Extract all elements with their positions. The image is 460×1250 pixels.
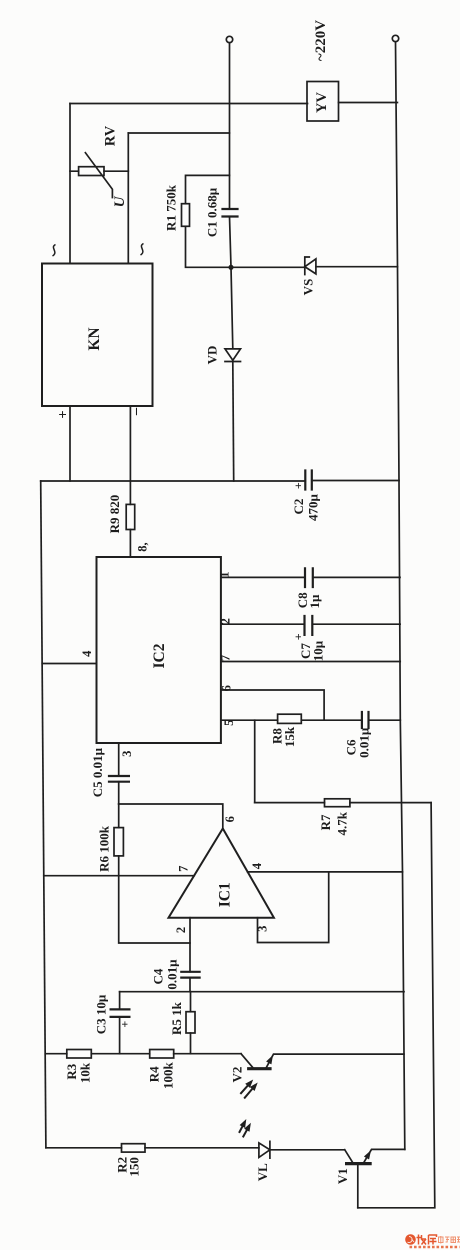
svg-text:R9 820: R9 820 xyxy=(107,495,122,534)
svg-text:C5 0.01μ: C5 0.01μ xyxy=(90,747,105,797)
svg-text:150: 150 xyxy=(127,1157,142,1177)
svg-text:C4: C4 xyxy=(150,968,165,984)
wire: IC2 pin7 to right rail xyxy=(221,661,400,663)
svg-text:V1: V1 xyxy=(335,1168,350,1184)
svg-text:10k: 10k xyxy=(78,1062,93,1083)
resistor R7 xyxy=(325,799,350,807)
svg-text:VL: VL xyxy=(255,1163,270,1181)
svg-text:3: 3 xyxy=(120,751,134,757)
wire: IC2 pin1 xyxy=(221,576,305,578)
wire: IC2 pin2 xyxy=(221,623,305,625)
resistor R9 xyxy=(126,504,135,529)
svg-text:10μ: 10μ xyxy=(310,640,325,661)
svg-text:~220V: ~220V xyxy=(313,20,329,61)
ac tilde left xyxy=(53,245,56,257)
light arrows from VL xyxy=(240,1122,249,1136)
watermark logo xyxy=(405,1234,460,1247)
svg-text:0.01μ: 0.01μ xyxy=(164,959,179,990)
wire: bottom emitter wire left of VL xyxy=(46,1147,259,1149)
V1 emitter arrowhead xyxy=(364,1150,371,1159)
svg-text:2: 2 xyxy=(218,618,232,624)
wire: R1 top lead xyxy=(186,175,230,203)
svg-text:V2: V2 xyxy=(229,1067,244,1083)
resistor R6 xyxy=(114,828,123,856)
wire: node horizontal to right rail xyxy=(120,991,404,993)
wire: R5 top lead xyxy=(190,992,192,1012)
svg-text:C2: C2 xyxy=(291,499,306,515)
wire: left mains vertical top xyxy=(229,43,231,209)
resistor R8 xyxy=(278,714,302,723)
wire: C5 to node xyxy=(118,782,120,804)
svg-text:VS: VS xyxy=(300,279,315,296)
svg-text:4: 4 xyxy=(80,650,94,657)
capacitor C1 xyxy=(223,209,238,217)
svg-text:8,: 8, xyxy=(135,542,149,551)
wire: horizontal RV branch to mains vertical xyxy=(128,132,229,134)
resistor R2 xyxy=(122,1144,146,1152)
wire: left rail xyxy=(41,481,46,1148)
svg-text:+: + xyxy=(55,410,71,418)
resistor R5 xyxy=(186,1012,195,1033)
wire: R7 wire left segment xyxy=(255,802,325,804)
wire: C4 to node wire xyxy=(189,978,191,992)
varistor RV body xyxy=(79,167,104,176)
wire: C6 to right rail xyxy=(369,719,401,721)
svg-text:+: + xyxy=(291,482,305,489)
svg-text:R5 1k: R5 1k xyxy=(169,1001,184,1035)
svg-text:RV: RV xyxy=(102,125,118,146)
wire: YV right to right rail xyxy=(339,102,398,104)
svg-text:C1 0.68μ: C1 0.68μ xyxy=(204,187,219,237)
wire: R1 bottom lead to VS wire xyxy=(186,226,230,267)
wire: VS wire left segment xyxy=(231,266,305,268)
phototransistor V2 xyxy=(249,1067,270,1070)
svg-text:R1 750k: R1 750k xyxy=(164,184,179,231)
wire: C3 bottom lead xyxy=(119,1017,121,1054)
capacitor C8 xyxy=(305,568,313,587)
wire: R8 to C6 xyxy=(301,719,362,721)
svg-text:6: 6 xyxy=(219,685,233,691)
node junction dot xyxy=(228,265,233,270)
V2 emitter arrowhead xyxy=(266,1055,273,1064)
wire: RV right branch vertical to KN top-right xyxy=(127,133,129,264)
svg-text:15k: 15k xyxy=(282,726,297,747)
zener diode VS xyxy=(305,259,316,274)
relay coil YV xyxy=(307,82,339,122)
svg-text:5: 5 xyxy=(222,720,236,726)
watermark bold glyph 2 xyxy=(429,1235,437,1245)
wire: C2 to right rail xyxy=(312,480,399,482)
watermark bold glyph 1 xyxy=(417,1235,437,1245)
svg-text:–: – xyxy=(128,407,144,416)
wire: top horizontal to YV left xyxy=(70,103,308,105)
watermark small glyphs xyxy=(439,1236,460,1244)
svg-text:IC1: IC1 xyxy=(217,882,234,907)
box KN xyxy=(42,264,153,407)
wire: IC1 pin2 down xyxy=(189,918,191,972)
svg-text:7: 7 xyxy=(218,655,232,661)
wire: left branch down to KN top-left xyxy=(69,104,71,264)
terminal right (mains) xyxy=(392,35,398,41)
wire: R6 leads xyxy=(119,804,190,943)
svg-text:2: 2 xyxy=(174,927,188,933)
watermark tiny caption xyxy=(410,1246,460,1249)
svg-text:R4: R4 xyxy=(147,1066,162,1082)
varistor RV wire xyxy=(70,170,128,172)
svg-text:4.7k: 4.7k xyxy=(335,811,350,835)
resistor R3 xyxy=(67,1050,92,1059)
svg-text:+: + xyxy=(291,633,305,640)
wire: IC1 pin7 from left rail xyxy=(44,875,194,877)
svg-text:1: 1 xyxy=(217,571,231,577)
wire: R7 to outer rail corner xyxy=(350,802,431,804)
terminal left (mains) xyxy=(226,36,232,42)
resistor R1 xyxy=(182,204,190,227)
LED VL xyxy=(259,1141,270,1158)
box IC2 xyxy=(97,557,221,743)
wire: IC2 pin6 bend xyxy=(221,690,324,720)
svg-text:C3 10μ: C3 10μ xyxy=(94,994,109,1034)
svg-text:YV: YV xyxy=(314,92,330,113)
capacitor C5 xyxy=(109,776,129,782)
diode VD xyxy=(225,349,241,362)
wire: C8 to right rail xyxy=(313,576,400,578)
svg-text:+: + xyxy=(118,1021,132,1028)
wire: IC2 pin4 to left rail xyxy=(42,663,96,665)
wire: KN bottom-left (+) down to bus xyxy=(69,406,71,481)
wire: branch pin5 down to R7 wire xyxy=(254,720,256,802)
capacitor C7 xyxy=(305,616,313,635)
op-amp IC1 triangle xyxy=(169,829,274,918)
varistor RV diagonal xyxy=(85,153,112,198)
svg-text:KN: KN xyxy=(86,327,103,350)
svg-text:3: 3 xyxy=(255,926,269,932)
wire: C3 top lead xyxy=(119,992,121,1010)
capacitor C2 xyxy=(305,471,312,490)
wire: DC bus horizontal xyxy=(41,480,306,482)
wire: right rail (neutral) xyxy=(396,42,405,1150)
svg-text:R7: R7 xyxy=(318,814,333,830)
svg-text:VD: VD xyxy=(204,346,219,365)
capacitor C4 xyxy=(181,972,199,978)
wire: left mains vertical below C1 xyxy=(230,217,233,349)
capacitor C3 xyxy=(111,1009,130,1017)
resistor R4 xyxy=(150,1050,174,1059)
wire: outer rail xyxy=(358,803,435,1208)
light arrows into V2 xyxy=(241,1082,255,1098)
svg-text:6: 6 xyxy=(223,816,237,822)
svg-text:100k: 100k xyxy=(160,1061,175,1089)
wire: IC1 pin3 feedback xyxy=(258,872,329,943)
wire: R5 bottom lead xyxy=(190,1033,192,1054)
wire: IC1 pin4 to right rail xyxy=(248,871,403,873)
svg-text:R6 100k: R6 100k xyxy=(96,825,111,872)
svg-text:U: U xyxy=(112,195,128,207)
wire: IC2 pin5 xyxy=(221,719,278,721)
wire: KN bottom-right (-) down through bus to R9 xyxy=(129,406,131,504)
transistor V1 xyxy=(347,1162,371,1165)
wire: IC2 pin3 down xyxy=(118,743,120,776)
wire: C7 to right rail xyxy=(312,623,400,625)
ac tilde right xyxy=(141,244,144,256)
svg-text:1μ: 1μ xyxy=(307,594,322,609)
wire: VS to right rail xyxy=(316,266,398,268)
svg-text:470μ: 470μ xyxy=(305,493,320,521)
wire: node to IC1 pin6 xyxy=(119,804,223,829)
svg-text:7: 7 xyxy=(176,866,190,872)
svg-text:IC2: IC2 xyxy=(151,643,168,668)
svg-text:0.01μ: 0.01μ xyxy=(356,727,371,758)
wire: R9 to IC2 pin8 xyxy=(129,530,131,558)
wire: VD to bus xyxy=(232,362,235,482)
capacitor C6 xyxy=(362,712,369,728)
svg-text:4: 4 xyxy=(250,862,264,869)
wire: bottom bias wire xyxy=(45,1053,241,1055)
wire: VL to V1 collector xyxy=(270,1149,345,1151)
wire: V1 base down to outer rail xyxy=(357,1165,359,1208)
